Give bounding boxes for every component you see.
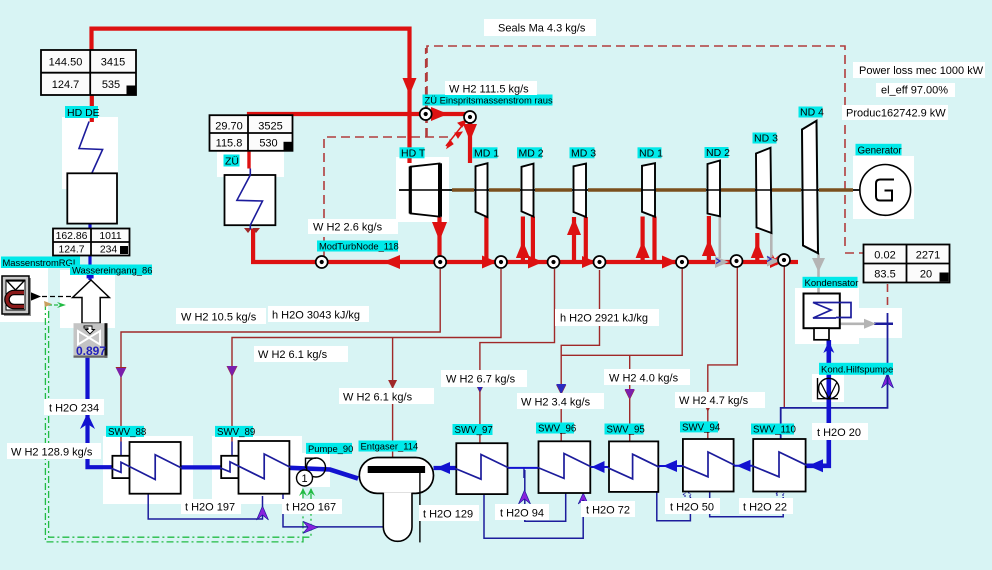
tiny blue ticks on gray elbows — [716, 259, 720, 264]
svg-text:h H2O 2921 kJ/kg: h H2O 2921 kJ/kg — [560, 313, 648, 325]
turbine shaft brown couplings — [452, 188, 853, 191]
svg-text:SWV_97: SWV_97 — [455, 425, 493, 436]
drain SWV_94 to SWV_110 — [710, 492, 784, 517]
label Wassereingang_86 — [70, 265, 152, 276]
label SWV_96 — [536, 423, 574, 434]
big up arrow on feedwater riser — [80, 413, 95, 429]
svg-text:t H2O 20: t H2O 20 — [817, 427, 861, 439]
ND1 inlet riser — [640, 217, 644, 263]
ND1 exhaust elbow — [652, 217, 656, 263]
text t H2O 234 — [44, 399, 104, 415]
svg-text:t H2O 22: t H2O 22 — [743, 502, 787, 514]
SWV_88 to riser corner — [88, 357, 113, 467]
text t H2O 129 — [419, 505, 479, 521]
svg-text:Seals Ma 4.3 kg/s: Seals Ma 4.3 kg/s — [498, 23, 586, 35]
svg-text:MD 1: MD 1 — [474, 148, 499, 160]
SWV_95 zigzag — [608, 454, 660, 479]
svg-text:W H2 4.0 kg/s: W H2 4.0 kg/s — [609, 373, 679, 385]
cyan component labels — [1, 95, 902, 455]
svg-text:0.897: 0.897 — [76, 344, 106, 358]
ZU reheater zigzag — [237, 169, 263, 230]
MD2 inlet riser — [521, 217, 525, 263]
reheater outlet to MD1 — [249, 114, 470, 163]
text W H2 4.7 — [675, 392, 765, 408]
svg-text:W H2 10.5 kg/s: W H2 10.5 kg/s — [181, 312, 257, 324]
svg-text:h H2O 3043 kJ/kg: h H2O 3043 kJ/kg — [272, 310, 360, 322]
turbine blade MD 1 — [476, 163, 488, 217]
svg-text:SWV_94: SWV_94 — [682, 423, 721, 434]
text W H2 6.1 b — [339, 388, 434, 404]
label MD 3 — [570, 147, 595, 158]
svg-text:124.7: 124.7 — [58, 245, 84, 256]
turbine shaft thin black — [399, 189, 860, 191]
label SWV_94 — [680, 421, 718, 432]
svg-text:1011: 1011 — [99, 231, 122, 242]
svg-text:W H2 4.7 kg/s: W H2 4.7 kg/s — [679, 395, 749, 407]
Entgaser deaerator dome — [359, 458, 433, 494]
value table ZU outlet — [210, 115, 293, 151]
svg-text:ND 4: ND 4 — [800, 107, 824, 119]
ZU reheater box — [225, 175, 276, 225]
svg-text:ZÜ Einspritsmassenstrom raus: ZÜ Einspritsmassenstrom raus — [425, 95, 553, 106]
boiler outlet to HD T inlet — [92, 29, 410, 163]
label SWV_89 — [215, 426, 253, 437]
Kond.Hilfspumpe impeller V — [821, 382, 838, 399]
label Kond.Hilfspumpe — [819, 363, 893, 375]
big red flow arrows — [383, 78, 783, 269]
up arrow below condenser pedestal — [823, 341, 834, 353]
HD DE box — [67, 173, 117, 223]
ZU inlet stub — [247, 151, 250, 169]
svg-text:MassenstromRGL: MassenstromRGL — [3, 257, 79, 268]
MD1 exhaust elbow — [484, 217, 488, 263]
extraction steam lines (thin dark red) — [121, 264, 784, 457]
Entgaser storage tank U — [383, 493, 412, 542]
SWV_88 zigzag — [111, 455, 182, 480]
MD3 exhaust elbow — [584, 217, 588, 262]
svg-text:530: 530 — [259, 138, 277, 150]
label ND 1 — [638, 147, 662, 158]
svg-text:W H2 3.4 kg/s: W H2 3.4 kg/s — [521, 397, 591, 409]
label ZU Einspritsmassenstrom raus — [423, 95, 553, 106]
svg-text:W H2 2.6 kg/s: W H2 2.6 kg/s — [313, 222, 383, 234]
label Pumpe_90 — [306, 443, 352, 454]
tiny arrows at ZU reheater bottom — [244, 228, 260, 233]
svg-text:SWV_96: SWV_96 — [538, 424, 576, 435]
svg-text:Produc162742.9 kW: Produc162742.9 kW — [846, 108, 946, 120]
bleed branch to Entgaser — [392, 338, 394, 458]
Entgaser to Pumpe_90 to SWV_89 — [289, 468, 358, 479]
svg-text:SWV_95: SWV_95 — [607, 425, 645, 436]
drain SWV_95 to SWV_94 — [657, 492, 691, 521]
svg-text:MD 3: MD 3 — [571, 148, 596, 160]
label MD 1 — [473, 147, 498, 158]
control valve panel — [74, 323, 107, 358]
label Generator — [856, 144, 902, 156]
SWV_94 heater box — [683, 439, 734, 492]
svg-text:ND 1: ND 1 — [639, 148, 663, 160]
svg-text:SWV_89: SWV_89 — [217, 427, 255, 438]
SWV_88 heater box — [130, 442, 181, 494]
condensate from condenser junction (thin blue) — [781, 313, 893, 440]
gray zero-flow elbow ND2 exhaust — [720, 216, 819, 293]
green dash-dot control line outer — [45, 303, 311, 542]
turbine blade MD 3 — [574, 164, 587, 217]
text W H2 111.5 — [445, 81, 537, 95]
bleed to SWV_94 — [708, 264, 738, 439]
text h H2O 2921 — [555, 309, 659, 326]
turbine blade ND 4 — [802, 121, 818, 253]
bleed to SWV_96 — [561, 270, 599, 441]
green arrow into pump control — [299, 488, 307, 496]
text W H2 2.6 — [308, 219, 398, 234]
SWV_97 to Entgaser — [434, 466, 457, 470]
SWV_96 zigzag — [538, 454, 592, 479]
HD T exhaust down — [437, 217, 441, 262]
text W H2 6.1 a — [254, 346, 348, 362]
value table feedwater — [53, 229, 130, 256]
svg-text:t H2O 129: t H2O 129 — [423, 509, 473, 521]
control valve bowtie — [78, 331, 100, 345]
Kond.Hilfspumpe bracket — [818, 378, 839, 399]
heater zigzags — [111, 452, 807, 480]
control valve actuator arrow — [84, 326, 95, 334]
svg-text:3525: 3525 — [258, 121, 282, 133]
turbine blade MD 2 — [522, 164, 534, 217]
value table HD DE outlet — [41, 50, 136, 95]
SWV_89 heater box — [239, 441, 290, 494]
drain SWV_97 riser to SWV_96 — [484, 495, 583, 539]
text t H2O 22 — [739, 498, 793, 514]
svg-text:124.7: 124.7 — [52, 79, 80, 91]
turbine blade ND 1 — [642, 163, 655, 217]
label SWV_95 — [605, 424, 644, 435]
svg-text:1: 1 — [301, 473, 307, 485]
Entgaser water level bar — [368, 466, 425, 473]
SWV_96 to SWV_97 — [508, 467, 539, 469]
svg-text:2271: 2271 — [916, 250, 940, 262]
SWV_97 zigzag — [455, 455, 508, 480]
SWV_94 zigzag — [682, 452, 735, 477]
bleed to SWV_89 — [232, 269, 501, 442]
T stub at condenser outlet junction — [874, 323, 893, 326]
Entgaser standpipe — [419, 472, 421, 543]
svg-text:Wassereingang_86: Wassereingang_86 — [72, 265, 152, 276]
heater drain lines (thin navy) — [148, 468, 784, 538]
navy tails into desuperheater boxes — [120, 442, 122, 457]
text W H2 128.9 — [7, 443, 101, 459]
T stub between SWV_97 and SWV_96 — [523, 468, 525, 478]
Kondensator box — [804, 294, 840, 329]
bleed to SWV_88 — [121, 269, 440, 442]
green dash-dot control line inner — [49, 311, 311, 537]
text Produc — [842, 105, 948, 120]
turbine blade ND 3 — [756, 148, 772, 233]
svg-text:ND 3: ND 3 — [754, 133, 778, 145]
text t H2O 50 — [665, 498, 720, 514]
SWV_96 heater box — [539, 441, 591, 493]
SWV_110 to SWV_94 — [734, 465, 754, 467]
drain SWV_96 up to main line — [525, 470, 566, 521]
label SWV_88 — [106, 426, 144, 437]
dotted inlet marks SWV_94 bottom — [683, 491, 691, 497]
dashed vertical into ZU node — [425, 119, 427, 137]
svg-text:29.70: 29.70 — [215, 121, 243, 133]
svg-text:Kond.Hilfspumpe: Kond.Hilfspumpe — [821, 364, 893, 375]
svg-text:535: 535 — [102, 79, 120, 91]
SWV_94 to SWV_95 — [658, 465, 683, 467]
dotted inlet marks SWV_110 bottom — [776, 490, 784, 496]
svg-text:SWV_110: SWV_110 — [753, 425, 797, 436]
label ZU — [224, 155, 240, 167]
gray line ND4 to condenser — [817, 253, 820, 293]
svg-text:ModTurbNode_118: ModTurbNode_118 — [319, 241, 399, 252]
generator circle — [860, 165, 911, 216]
shaft line through blades — [399, 189, 860, 191]
turbine HD T body — [411, 164, 440, 217]
condenser to Kond.Hilfspumpe to SWV_110 — [806, 340, 829, 466]
label MD 2 — [517, 147, 542, 158]
svg-text:W H2 128.9 kg/s: W H2 128.9 kg/s — [11, 447, 93, 459]
text t H2O 20 — [812, 423, 868, 440]
turbine exhaust header — [440, 260, 784, 264]
small blue stub at water inlet arrow top — [87, 275, 94, 279]
flow nodes — [420, 108, 432, 120]
bleed to join condensate at SWV_110 — [783, 264, 785, 407]
svg-text:Entgaser_114: Entgaser_114 — [361, 441, 419, 452]
SWV_95 heater box — [609, 441, 658, 492]
text t H2O 197 — [181, 499, 241, 514]
SWV_110 zigzag — [752, 452, 807, 477]
small bleed arrows — [116, 366, 713, 412]
ND3 inlet riser — [755, 233, 759, 262]
svg-text:234: 234 — [100, 245, 118, 256]
svg-text:115.8: 115.8 — [216, 138, 243, 150]
label Kondensator — [803, 277, 858, 288]
SWV_89 to SWV_88 — [181, 465, 222, 469]
label HD T — [400, 147, 425, 158]
svg-text:0.02: 0.02 — [874, 250, 895, 262]
feedwater riser above valve to HD DE — [88, 224, 91, 280]
drain SWV_89 to Entgaser tank — [283, 494, 383, 527]
black arrow of source icon — [29, 292, 41, 302]
text h H2O 3043 — [268, 306, 369, 322]
text W H2 4.0 — [604, 369, 690, 385]
Kondensator hotwell pedestal — [814, 328, 829, 340]
label MassenstromRGL — [1, 257, 80, 269]
label SWV_110 — [751, 424, 794, 435]
value table condenser — [864, 245, 950, 283]
svg-text:20: 20 — [920, 269, 932, 281]
SWV_89 zigzag — [220, 454, 291, 479]
text Seals Ma — [484, 19, 596, 36]
dashed stub to condenser table — [845, 252, 863, 254]
svg-text:t H2O 72: t H2O 72 — [586, 505, 630, 517]
text W H2 10.5 — [176, 308, 266, 324]
stub right of last node — [788, 260, 798, 264]
label ND 2 — [705, 147, 729, 158]
thin red injection arrow at ZU node — [446, 120, 467, 148]
source icon MassenstromRGL — [2, 276, 31, 316]
svg-text:HD T: HD T — [401, 148, 426, 160]
text W H2 6.7 — [441, 370, 527, 387]
text el_eff — [876, 83, 955, 97]
svg-text:W H2 111.5 kg/s: W H2 111.5 kg/s — [449, 84, 529, 96]
Kondensator cooling loop — [813, 303, 851, 319]
purple drain arrows — [257, 373, 894, 533]
svg-text:t H2O 234: t H2O 234 — [49, 403, 99, 415]
main steam thick red lines — [92, 29, 799, 262]
svg-text:Pumpe_90: Pumpe_90 — [308, 443, 353, 454]
MD2 exhaust elbow — [531, 217, 535, 263]
text t H2O 72 — [581, 501, 635, 517]
label ND 3 — [753, 133, 777, 144]
text t H2O 167 — [282, 499, 342, 514]
Pumpe_90 bracket — [306, 458, 317, 468]
Kond.Hilfspumpe circle — [819, 378, 839, 398]
svg-text:162.86: 162.86 — [56, 231, 88, 242]
svg-text:t H2O 197: t H2O 197 — [185, 502, 235, 514]
label ModTurbNode_118 — [317, 241, 398, 252]
SWV_110 heater box — [753, 439, 805, 492]
svg-text:83.5: 83.5 — [874, 269, 895, 281]
Pumpe_90 speed circle 1 — [297, 470, 313, 486]
svg-text:Kondensator: Kondensator — [805, 278, 859, 289]
bleed to SWV_97 — [480, 269, 555, 443]
main feedwater thick blue — [88, 224, 829, 479]
SWV_89 desuperheater small box — [221, 456, 238, 478]
SWV_88 desuperheater small box — [112, 439, 805, 494]
SWV_95 to SWV_96 — [590, 466, 609, 468]
svg-text:SWV_88: SWV_88 — [108, 427, 146, 438]
green arrow near valve — [57, 302, 66, 308]
HD DE heater zigzag — [79, 122, 103, 176]
text Power loss — [853, 62, 985, 78]
MD3 inlet riser — [572, 217, 576, 262]
svg-text:Generator: Generator — [858, 145, 903, 156]
Pumpe_90 circle — [307, 458, 326, 477]
black dashed line from source icon to water arrow — [42, 296, 73, 298]
SWV_97 heater box — [456, 443, 507, 494]
svg-text:t H2O 94: t H2O 94 — [500, 508, 544, 520]
label ND 4 — [799, 107, 823, 118]
svg-text:W H2 6.1 kg/s: W H2 6.1 kg/s — [343, 392, 413, 404]
svg-text:3415: 3415 — [101, 57, 125, 69]
water inlet big arrow Wassereingang — [73, 280, 110, 323]
text t H2O 94 — [495, 504, 549, 520]
svg-text:W H2 6.1 kg/s: W H2 6.1 kg/s — [258, 349, 328, 361]
svg-text:t H2O 167: t H2O 167 — [286, 502, 336, 514]
ND2 inlet riser — [707, 216, 711, 262]
dashed red below condenser table — [887, 284, 889, 309]
dashed einspritz line — [324, 137, 452, 260]
text W H2 3.4 — [517, 393, 604, 409]
bleed to SWV_95 — [561, 267, 682, 355]
svg-text:ZÜ: ZÜ — [225, 156, 239, 168]
white background patches — [0, 117, 914, 504]
cold reheat line to ZU — [253, 229, 440, 262]
svg-text:MD 2: MD 2 — [519, 148, 544, 160]
svg-text:144.50: 144.50 — [49, 57, 83, 69]
svg-text:Power loss mec 1000 kW: Power loss mec 1000 kW — [859, 65, 984, 77]
fat blue flow arrows — [80, 275, 834, 474]
drain SWV_88 to SWV_89 — [148, 494, 262, 519]
gray cooling water line from condenser — [840, 322, 867, 325]
turbine blade ND 2 — [708, 161, 721, 217]
svg-text:W H2 6.7 kg/s: W H2 6.7 kg/s — [446, 374, 516, 386]
boiler riser below table — [90, 95, 94, 122]
svg-text:t H2O 50: t H2O 50 — [670, 502, 714, 514]
svg-text:ND 2: ND 2 — [706, 147, 730, 159]
svg-text:HD DE: HD DE — [67, 107, 100, 119]
generator G glyph — [876, 180, 894, 201]
seal steam dashed loop (Seals Ma) — [324, 46, 888, 309]
label HD DE — [65, 106, 98, 118]
label SWV_97 — [453, 424, 493, 435]
label Entgaser_114 — [359, 441, 417, 452]
svg-text:el_eff 97.00%: el_eff 97.00% — [881, 85, 948, 97]
